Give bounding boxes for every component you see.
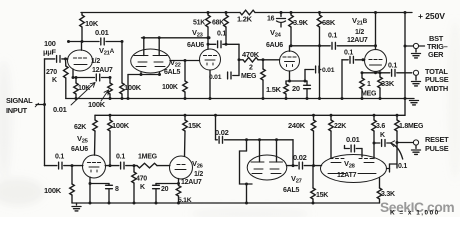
svg-text:V24: V24 [270, 28, 282, 39]
svg-text:0.01: 0.01 [322, 67, 335, 74]
svg-text:20: 20 [161, 186, 169, 193]
svg-text:12AU7: 12AU7 [347, 37, 368, 44]
svg-text:6AU6: 6AU6 [71, 146, 88, 153]
svg-text:100K: 100K [44, 186, 62, 195]
svg-text:K: K [52, 77, 57, 84]
svg-text:68K: 68K [322, 18, 336, 27]
svg-text:0.1: 0.1 [328, 33, 337, 40]
svg-text:0.01: 0.01 [209, 74, 222, 81]
svg-text:+ 250V: + 250V [418, 11, 445, 21]
svg-text:20: 20 [292, 84, 300, 93]
svg-text:GER: GER [428, 50, 444, 59]
svg-text:270: 270 [46, 69, 57, 76]
svg-text:μμF: μμF [43, 48, 57, 57]
svg-text:0.1: 0.1 [388, 63, 397, 70]
svg-text:3.9K: 3.9K [293, 18, 309, 27]
svg-text:0.02: 0.02 [215, 128, 229, 137]
svg-text:1: 1 [367, 81, 371, 88]
svg-text:6AL5: 6AL5 [164, 69, 180, 76]
svg-text:0.1: 0.1 [398, 163, 407, 170]
svg-text:V27: V27 [291, 174, 302, 185]
svg-text:51K: 51K [193, 20, 205, 27]
svg-text:22K: 22K [334, 123, 346, 130]
svg-text:0.1: 0.1 [217, 31, 226, 38]
svg-text:12AU7: 12AU7 [92, 67, 113, 74]
svg-text:SIGNAL: SIGNAL [6, 96, 33, 105]
svg-text:62K: 62K [74, 124, 86, 131]
svg-text:1/2: 1/2 [355, 29, 364, 36]
svg-text:PULSE: PULSE [425, 75, 449, 84]
svg-text:1MEG: 1MEG [138, 154, 158, 161]
svg-text:6AU6: 6AU6 [266, 42, 283, 49]
svg-text:100K: 100K [88, 100, 106, 109]
svg-text:PULSE: PULSE [425, 144, 449, 153]
svg-text:6AU6: 6AU6 [187, 42, 204, 49]
svg-text:33K: 33K [381, 79, 395, 88]
svg-text:2: 2 [249, 65, 253, 72]
svg-text:15K: 15K [188, 121, 202, 130]
svg-text:0.1: 0.1 [116, 154, 125, 161]
svg-text:1.2K: 1.2K [237, 15, 253, 24]
svg-text:16: 16 [267, 16, 275, 23]
svg-text:0.02: 0.02 [293, 153, 307, 162]
svg-text:0.01: 0.01 [346, 135, 360, 144]
svg-text:V26: V26 [192, 159, 204, 170]
svg-text:RESET: RESET [425, 135, 449, 144]
svg-text:WIDTH: WIDTH [425, 84, 448, 93]
svg-text:0.01: 0.01 [95, 28, 109, 37]
svg-text:12AU7: 12AU7 [181, 179, 202, 186]
svg-text:V22: V22 [170, 58, 181, 69]
svg-text:K: K [380, 132, 385, 139]
svg-text:100K: 100K [124, 83, 142, 92]
svg-text:100K: 100K [112, 121, 130, 130]
svg-text:3.6: 3.6 [376, 123, 385, 130]
svg-text:470K: 470K [242, 50, 260, 59]
svg-text:15K: 15K [316, 192, 328, 199]
svg-text:8: 8 [115, 186, 119, 193]
svg-text:1.8MEG: 1.8MEG [399, 123, 424, 130]
svg-text:K: K [140, 184, 145, 191]
svg-text:MEG: MEG [361, 91, 377, 98]
svg-text:V23: V23 [192, 28, 204, 39]
svg-text:V21B: V21B [352, 16, 368, 27]
svg-text:0.1: 0.1 [55, 154, 64, 161]
svg-text:68K: 68K [212, 20, 224, 27]
svg-text:V25: V25 [77, 134, 89, 145]
svg-text:INPUT: INPUT [6, 106, 28, 115]
svg-text:MEG: MEG [241, 73, 257, 80]
svg-text:V21A: V21A [99, 46, 115, 57]
svg-text:10K: 10K [85, 19, 99, 28]
svg-text:1.5K: 1.5K [266, 85, 282, 94]
svg-text:V28: V28 [344, 159, 356, 170]
svg-text:3.3K: 3.3K [381, 191, 395, 198]
svg-text:470: 470 [136, 176, 147, 183]
svg-text:240K: 240K [288, 121, 306, 130]
svg-text:100K: 100K [162, 84, 178, 91]
svg-text:K = x 1,000: K = x 1,000 [390, 210, 440, 217]
svg-text:0.1: 0.1 [344, 50, 353, 57]
svg-text:0.01: 0.01 [53, 105, 67, 114]
svg-text:1/2: 1/2 [194, 171, 203, 178]
svg-text:6AL5: 6AL5 [283, 187, 299, 194]
